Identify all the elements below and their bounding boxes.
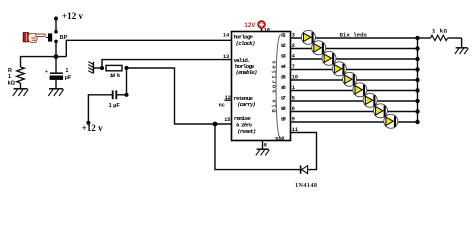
nc label [219,102,225,108]
node A (enable/reset ground node) [100,66,104,70]
svg-text:1N4148: 1N4148 [295,182,317,189]
pin 10 label [292,74,298,80]
wire s2 output row [291,48,418,50]
node bus junction s2 [415,46,419,50]
svg-text:1 kΩ: 1 kΩ [432,27,448,34]
+12V red terminal pin 16 [258,21,266,32]
svg-text:(reset): (reset) [237,128,256,135]
svg-text:6: 6 [292,106,295,112]
svg-text:7: 7 [292,64,295,70]
node bus junction s3 [415,57,419,61]
pin 12 nc stub [225,99,232,101]
Dix sorties rotated label [271,60,278,113]
IC label remise a zero (reset) [234,115,256,135]
pin 14 label [223,33,229,39]
svg-text:s1: s1 [281,32,287,39]
wire node B to reset pin 15 [127,68,232,124]
hand pointer icon [23,33,45,43]
LED D4 [332,62,346,76]
resistor R 1 kOhm (pull-down) [17,57,25,89]
pin 5 label [292,95,295,101]
IC U1 CD4017 box [232,32,291,141]
push button BP [46,30,58,43]
node BP/R/C junction [54,54,59,59]
pin 3 label [292,32,295,38]
node bus junction s7 [415,99,419,103]
svg-text:(carry): (carry) [237,101,256,108]
12V supply red label [244,22,256,29]
svg-text:13: 13 [223,54,229,60]
node bus junction s6 [415,88,419,92]
pin 15 label [224,117,230,123]
svg-text:11: 11 [292,127,298,133]
svg-text:(enable): (enable) [236,69,258,76]
1N4148 label [295,182,317,189]
svg-text:+12 v: +12 v [62,11,84,21]
s10 output label [275,135,285,142]
wire C2 to +12v terminal [88,95,112,123]
Dix leds label [340,31,368,38]
capacitor C1 1uF electrolytic [45,57,64,89]
node +12v terminal dot [54,17,58,21]
LED D8 [374,104,388,118]
pin 8 ground stub [262,141,264,150]
svg-text:16: 16 [264,27,270,33]
C1 value labels [65,68,72,81]
wire s5 output row [291,79,418,81]
svg-text:s5: s5 [281,74,287,81]
svg-text:s7: s7 [281,95,287,102]
wire node B down to C2 [126,68,128,95]
IC label valid. horloge (enable) [234,57,258,76]
node +12v terminal dot (bottom) [86,121,90,125]
LED D7 [363,93,377,107]
pin 6 label [292,106,295,112]
ground (IC pin 8) [256,149,270,155]
R value labels [8,68,16,87]
svg-text:Dix leds: Dix leds [340,31,368,38]
pin 8 label [264,142,267,148]
svg-text:s6: s6 [281,84,287,91]
node bus junction s4 [415,67,419,71]
wire BP to junction node [55,41,57,57]
wire s1 output row [291,37,418,39]
svg-text:2: 2 [292,43,295,49]
pin 7 label [292,64,295,70]
pin 16 label [264,27,270,33]
ground (rotated, left of enable node) [88,62,93,74]
s1..s9 output labels [281,32,287,123]
wire ground to node A [93,67,102,69]
svg-text:s8: s8 [281,105,287,112]
svg-text:s3: s3 [281,53,287,60]
svg-text:+: + [45,68,49,75]
resistor 1 kOhm (LED common) [418,35,462,40]
svg-text:+12 v: +12 v [82,123,104,133]
wire s6 output row [291,90,418,92]
LED D9 [384,114,398,128]
wire s7 output row [291,100,418,102]
svg-text:nc: nc [219,102,225,108]
svg-text:s4: s4 [281,63,287,70]
svg-text:µF: µF [65,75,72,81]
node bus junction s9 [415,120,419,124]
pin 1 label [292,85,295,91]
ground (below C1) [48,89,63,96]
LED D2 [312,41,326,55]
1 kOhm value label [432,27,448,34]
svg-text:1: 1 [292,85,295,91]
wire LED cathode bus [417,38,419,122]
wire clock line to pin 14 [66,40,231,56]
wire diode to s10 [291,133,317,170]
output brace [276,35,280,139]
node bus junction s1 [415,36,419,40]
wire s3 output row [291,58,418,60]
svg-text:10: 10 [292,74,298,80]
LED D5 [343,72,357,86]
pin 11 label [292,127,298,133]
pin 13 label [223,54,229,60]
C2 value label [109,103,121,109]
svg-text:5: 5 [292,95,295,101]
IC label horloge (clock) [234,34,256,47]
pin 12 label [225,95,231,101]
wire s9 output row [291,121,418,123]
BP label [60,35,68,41]
LED D3 [322,51,336,65]
svg-text:9: 9 [292,116,295,122]
node bus junction s5 [415,78,419,82]
node C2 right junction [124,93,128,97]
svg-text:(clock): (clock) [236,40,256,47]
wire +12v to push button [55,19,57,32]
IC label retenue (carry) [234,95,257,108]
pin 4 label [292,53,295,59]
svg-text:kΩ: kΩ [8,81,16,87]
wire enable line to pin 13 [102,60,232,68]
diode 1N4148 [301,165,308,173]
svg-text:R: R [8,68,12,74]
svg-text:15: 15 [224,117,230,123]
svg-text:s9: s9 [281,116,287,123]
+12 v supply label (bottom) [82,123,104,133]
wire s8 output row [291,111,418,113]
svg-text:1: 1 [65,68,68,74]
wire reset junction down to diode rail [215,124,300,170]
node reset line junction [213,122,218,127]
svg-text:1: 1 [8,74,11,80]
pin 2 label [292,43,295,49]
svg-text:s10: s10 [275,135,285,142]
wire s4 output row [291,69,418,71]
svg-text:8: 8 [264,142,267,148]
svg-text:12V: 12V [244,22,256,29]
wire junction rail [20,56,66,58]
ground (after 1k) [455,48,469,54]
node bus junction s8 [415,109,419,113]
wire 1k to ground [461,38,463,48]
capacitor C2 1uF [113,90,127,99]
svg-text:14: 14 [223,33,229,39]
ground (below R) [13,89,28,96]
10k value label [110,72,121,79]
node B (10k / C2 / reset junction) [124,66,128,70]
LED D6 [353,83,367,97]
pin 9 label [292,116,295,122]
svg-text:s2: s2 [281,42,287,49]
+12 v supply label (top left) [62,11,84,21]
resistor 10k [106,65,122,70]
svg-text:4: 4 [292,53,295,59]
svg-text:10 k: 10 k [110,72,121,79]
svg-text:3: 3 [292,32,295,38]
svg-text:1 µF: 1 µF [109,103,121,109]
LED D1 [301,30,315,44]
